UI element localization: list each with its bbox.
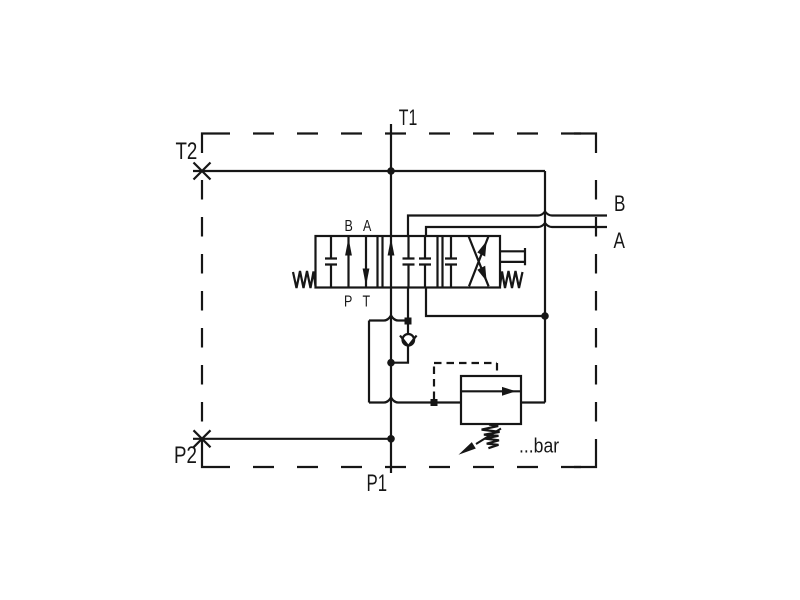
valve right return spring <box>500 271 523 288</box>
svg-text:P: P <box>344 293 352 311</box>
relief valve internal arrowhead <box>502 387 516 396</box>
wire: bypass loop left side <box>368 321 370 403</box>
relief valve internal flow line <box>461 390 521 392</box>
valve pos2 blocked port symbol left <box>403 236 415 288</box>
wire: port B line with hop over right vertical <box>408 212 607 237</box>
valve left return spring <box>293 271 316 288</box>
relief valve pilot dashed line <box>434 363 497 399</box>
check valve ball <box>403 334 415 346</box>
directional valve main box <box>316 236 501 288</box>
valve actuator plunger at right end <box>500 248 525 265</box>
check valve line from square to ball <box>407 325 409 336</box>
wire: right vertical drop from T2/T1 line to relief valve <box>544 171 546 403</box>
svg-text:B: B <box>345 218 353 236</box>
relief valve spring <box>482 425 500 449</box>
enclosure dashed border left side <box>201 163 203 448</box>
junction square at pilot tap <box>431 399 438 406</box>
wire: valve port down and right to junction on right vertical <box>426 288 545 317</box>
relief valve adjustment arrow <box>476 429 501 445</box>
wire: valve port to check valve branch <box>407 288 409 318</box>
svg-text:...bar: ...bar <box>519 434 559 456</box>
junction dot at T1/T2 <box>387 167 395 175</box>
svg-text:T: T <box>363 293 371 311</box>
junction dot at check valve return <box>387 359 395 367</box>
valve pos3 cross arrowhead up <box>477 241 486 257</box>
wire: bypass loop top with hop over main line <box>369 316 405 321</box>
svg-text:B: B <box>614 192 625 217</box>
junction square at check valve top <box>405 318 412 325</box>
valve position divider lines <box>378 236 443 288</box>
valve pos1 blocked port symbol <box>325 236 337 288</box>
svg-text:P2: P2 <box>174 442 197 469</box>
valve pos2 blocked port symbol right <box>419 236 431 288</box>
valve pos1 arrow down A to T <box>365 236 367 288</box>
wire: check valve outlet down and left to main line <box>391 346 408 363</box>
valve pos1 arrow up P to B <box>347 236 349 288</box>
enclosure dashed border top side <box>230 132 581 134</box>
plugged port symbol X at T2 <box>194 163 211 180</box>
valve pos1 down arrowhead <box>363 269 370 287</box>
svg-text:P1: P1 <box>367 470 388 497</box>
enclosure dashed border bottom side <box>230 466 581 468</box>
wire: T2 horizontal line to main line and on to right drop <box>193 170 545 172</box>
wire: port A line with hop over right vertical <box>426 223 607 236</box>
svg-text:A: A <box>614 229 626 254</box>
check valve seat <box>400 336 417 347</box>
wire: bypass loop bottom to relief valve with hop over main line <box>369 398 461 403</box>
svg-text:T1: T1 <box>399 107 417 131</box>
junction dot on right vertical <box>541 312 549 320</box>
svg-text:A: A <box>363 218 372 236</box>
relief valve body box <box>461 376 521 424</box>
svg-text:T2: T2 <box>176 138 198 165</box>
valve pos3 crossed flow diagonal lines <box>469 236 489 286</box>
valve pos1 up arrowhead <box>345 238 352 256</box>
wire: relief valve right port to right vertical <box>521 401 545 403</box>
junction dot at P2 line <box>387 435 395 443</box>
wire: main vertical line T1-P1 <box>390 124 392 473</box>
valve pos2 up arrowhead on main line <box>388 238 395 256</box>
enclosure dashed border corner pieces <box>202 134 596 468</box>
valve pos3 blocked port symbol <box>445 236 457 288</box>
wire: P2 horizontal line <box>193 438 391 440</box>
plugged port symbol X at P2 <box>194 430 211 447</box>
enclosure dashed border right side <box>595 163 597 448</box>
valve pos3 cross arrowhead down <box>477 266 486 282</box>
